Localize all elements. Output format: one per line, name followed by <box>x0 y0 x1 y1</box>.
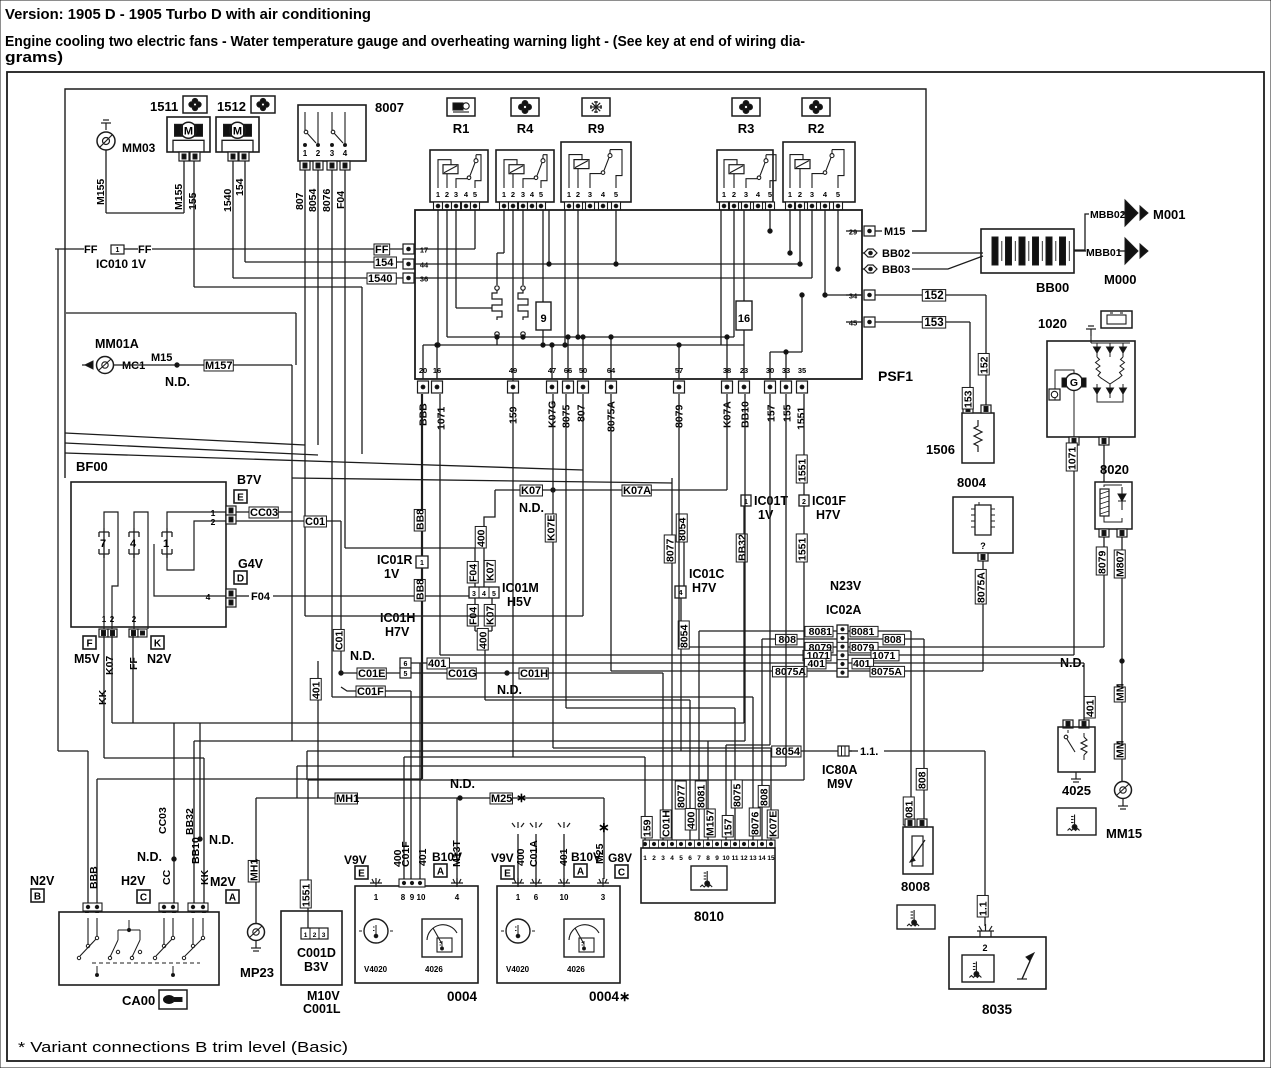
svg-text:3: 3 <box>521 190 525 199</box>
svg-text:2: 2 <box>445 190 449 199</box>
svg-text:2: 2 <box>313 932 317 939</box>
svg-text:MC1: MC1 <box>122 360 145 372</box>
svg-text:7: 7 <box>697 855 701 862</box>
svg-text:2: 2 <box>732 190 736 199</box>
svg-text:M155: M155 <box>95 179 107 205</box>
svg-text:K07: K07 <box>104 656 116 675</box>
svg-text:MH1: MH1 <box>336 793 359 805</box>
svg-text:29: 29 <box>849 228 857 237</box>
svg-text:1: 1 <box>436 190 440 199</box>
svg-text:3: 3 <box>330 149 335 158</box>
svg-text:5: 5 <box>679 855 683 862</box>
svg-text:5: 5 <box>614 190 618 199</box>
svg-text:C01: C01 <box>305 516 325 528</box>
svg-text:1551: 1551 <box>796 406 808 430</box>
svg-text:16: 16 <box>738 313 750 325</box>
svg-text:FF: FF <box>84 244 98 256</box>
svg-text:1: 1 <box>567 190 571 199</box>
svg-text:?: ? <box>980 541 986 551</box>
svg-text:FF: FF <box>138 244 152 256</box>
svg-text:8076: 8076 <box>321 188 333 212</box>
svg-text:64: 64 <box>607 366 616 375</box>
svg-text:1: 1 <box>303 149 308 158</box>
svg-text:1511: 1511 <box>150 99 178 114</box>
svg-text:MBB02: MBB02 <box>1090 209 1126 221</box>
svg-text:K07: K07 <box>484 562 496 581</box>
svg-text:C001L: C001L <box>303 1002 341 1016</box>
svg-text:808: 808 <box>758 788 770 806</box>
svg-text:15: 15 <box>767 855 775 862</box>
svg-text:1: 1 <box>516 893 521 902</box>
svg-text:8077: 8077 <box>675 784 687 808</box>
svg-text:K07: K07 <box>484 606 496 625</box>
svg-text:400: 400 <box>515 848 527 866</box>
svg-text:N.D.: N.D. <box>165 375 190 389</box>
svg-text:1551: 1551 <box>300 883 312 907</box>
svg-text:3: 3 <box>454 190 458 199</box>
svg-text:8075A: 8075A <box>975 572 987 603</box>
svg-text:36: 36 <box>420 275 428 284</box>
svg-text:V4020: V4020 <box>364 965 388 974</box>
svg-text:C: C <box>140 893 147 904</box>
svg-text:1551: 1551 <box>796 458 808 482</box>
svg-text:MM01A: MM01A <box>95 337 139 351</box>
svg-text:8081: 8081 <box>695 784 707 808</box>
svg-text:2: 2 <box>211 517 216 527</box>
svg-text:6: 6 <box>404 661 408 668</box>
svg-text:F: F <box>86 639 92 650</box>
svg-text:2: 2 <box>798 190 802 199</box>
svg-text:2: 2 <box>110 615 115 624</box>
svg-text:5: 5 <box>836 190 840 199</box>
svg-text:N2V: N2V <box>30 874 55 888</box>
svg-text:BB02: BB02 <box>882 248 910 260</box>
svg-text:4: 4 <box>482 591 486 598</box>
svg-text:401: 401 <box>1084 699 1096 717</box>
svg-text:5: 5 <box>492 591 496 598</box>
svg-text:4: 4 <box>206 592 211 602</box>
svg-text:* Variant connections B trim: * Variant connections B trim level (Basi… <box>18 1039 348 1056</box>
svg-text:MM03: MM03 <box>122 141 156 155</box>
svg-text:F04: F04 <box>335 191 347 209</box>
svg-text:N.D.: N.D. <box>209 833 234 847</box>
svg-text:M000: M000 <box>1104 272 1137 287</box>
svg-text:8: 8 <box>706 855 710 862</box>
svg-text:M157: M157 <box>704 810 716 836</box>
svg-text:N.D.: N.D. <box>519 501 544 515</box>
svg-text:155: 155 <box>782 404 794 422</box>
svg-text:3: 3 <box>744 190 748 199</box>
svg-text:C01E: C01E <box>358 668 386 680</box>
svg-text:K: K <box>154 639 162 650</box>
svg-text:BB32: BB32 <box>184 808 196 835</box>
svg-text:8075: 8075 <box>731 783 743 807</box>
svg-text:1: 1 <box>116 247 120 254</box>
svg-text:1: 1 <box>502 190 506 199</box>
svg-text:4026: 4026 <box>567 965 585 974</box>
svg-text:2: 2 <box>132 615 137 624</box>
svg-text:4: 4 <box>670 855 674 862</box>
svg-text:10: 10 <box>560 893 569 902</box>
svg-text:M13T: M13T <box>451 840 463 867</box>
svg-text:MM: MM <box>1114 740 1126 758</box>
svg-text:2: 2 <box>576 190 580 199</box>
svg-text:N.D.: N.D. <box>350 649 375 663</box>
svg-text:1020: 1020 <box>1038 316 1067 331</box>
svg-text:BB03: BB03 <box>882 264 910 276</box>
svg-text:50: 50 <box>579 366 587 375</box>
svg-text:C01F: C01F <box>357 686 384 698</box>
svg-text:4: 4 <box>343 149 348 158</box>
svg-text:CC03: CC03 <box>250 507 278 519</box>
svg-text:10: 10 <box>722 855 730 862</box>
svg-text:66: 66 <box>564 366 572 375</box>
svg-text:1071: 1071 <box>872 650 896 662</box>
svg-text:3: 3 <box>661 855 665 862</box>
svg-text:IC01M: IC01M <box>502 581 539 595</box>
svg-text:M157: M157 <box>205 360 233 372</box>
svg-text:N23V: N23V <box>830 579 862 593</box>
svg-text:C01: C01 <box>333 631 345 650</box>
svg-text:57: 57 <box>675 366 683 375</box>
svg-text:CC03: CC03 <box>157 807 169 834</box>
svg-text:9: 9 <box>410 893 415 902</box>
svg-text:M2V: M2V <box>210 875 236 889</box>
svg-text:BB00: BB00 <box>1036 280 1069 295</box>
svg-text:1: 1 <box>788 190 792 199</box>
svg-text:49: 49 <box>509 366 517 375</box>
svg-text:9: 9 <box>540 313 546 325</box>
svg-text:C001D: C001D <box>297 946 336 960</box>
svg-text:M25: M25 <box>594 843 606 864</box>
svg-text:401: 401 <box>853 658 871 670</box>
svg-text:N.D.: N.D. <box>137 850 162 864</box>
svg-text:A: A <box>437 867 444 878</box>
svg-text:PSF1: PSF1 <box>878 368 913 384</box>
svg-text:M807: M807 <box>1114 551 1126 577</box>
svg-text:M10V: M10V <box>307 989 340 1003</box>
svg-text:1: 1 <box>102 615 107 624</box>
svg-text:Engine cooling two electric fa: Engine cooling two electric fans - Water… <box>5 33 805 50</box>
svg-text:8081: 8081 <box>809 626 833 638</box>
svg-text:C01A: C01A <box>528 840 540 867</box>
svg-text:C01G: C01G <box>448 668 477 680</box>
svg-text:C: C <box>618 868 625 879</box>
svg-text:E: E <box>358 869 365 880</box>
svg-text:grams): grams) <box>5 49 63 66</box>
svg-text:C01H: C01H <box>660 810 672 837</box>
svg-text:1.1: 1.1 <box>977 901 989 916</box>
svg-text:155: 155 <box>187 192 199 210</box>
svg-text:R1: R1 <box>453 121 470 136</box>
svg-text:8007: 8007 <box>375 100 404 115</box>
svg-text:H5V: H5V <box>507 595 532 609</box>
svg-text:BBB: BBB <box>418 403 430 426</box>
svg-text:B3V: B3V <box>304 960 329 974</box>
svg-text:1: 1 <box>722 190 726 199</box>
svg-text:CC: CC <box>161 869 173 885</box>
svg-text:IC01C: IC01C <box>689 567 724 581</box>
svg-text:152: 152 <box>978 356 990 374</box>
svg-text:H7V: H7V <box>692 581 717 595</box>
svg-text:MP23: MP23 <box>240 965 274 980</box>
svg-text:8054: 8054 <box>776 746 801 758</box>
svg-text:D: D <box>237 574 244 585</box>
svg-text:157: 157 <box>766 404 778 422</box>
svg-text:808: 808 <box>884 634 902 646</box>
svg-text:IC80A: IC80A <box>822 763 857 777</box>
svg-text:R9: R9 <box>588 121 605 136</box>
svg-text:M155: M155 <box>173 184 185 210</box>
svg-text:M15: M15 <box>151 352 172 364</box>
svg-text:8079: 8079 <box>1096 550 1108 574</box>
svg-text:401: 401 <box>807 658 825 670</box>
svg-text:G: G <box>1070 377 1078 389</box>
svg-text:H7V: H7V <box>816 508 841 522</box>
svg-text:H7V: H7V <box>385 625 410 639</box>
svg-text:8020: 8020 <box>1100 462 1129 477</box>
svg-text:BB32: BB32 <box>736 534 748 561</box>
svg-text:8: 8 <box>401 893 406 902</box>
svg-text:1071: 1071 <box>1066 446 1078 470</box>
svg-text:152: 152 <box>924 290 943 302</box>
svg-text:A: A <box>577 867 584 878</box>
svg-text:13: 13 <box>749 855 757 862</box>
svg-text:M: M <box>184 125 193 137</box>
svg-text:44: 44 <box>420 261 429 270</box>
svg-text:8008: 8008 <box>901 879 930 894</box>
svg-text:1540: 1540 <box>222 188 234 212</box>
svg-text:34: 34 <box>849 292 858 301</box>
svg-text:5: 5 <box>539 190 543 199</box>
svg-text:BB10: BB10 <box>190 837 202 864</box>
svg-text:B7V: B7V <box>237 473 262 487</box>
svg-text:F04: F04 <box>467 564 479 582</box>
svg-text:MM: MM <box>1114 683 1126 701</box>
svg-text:47: 47 <box>548 366 556 375</box>
svg-text:V9V: V9V <box>344 853 367 867</box>
svg-text:BBB: BBB <box>88 866 100 889</box>
svg-text:3: 3 <box>601 893 606 902</box>
svg-text:8075A: 8075A <box>775 666 806 678</box>
svg-text:400: 400 <box>475 529 487 547</box>
svg-text:N.D.: N.D. <box>497 683 522 697</box>
svg-text:V4020: V4020 <box>506 965 530 974</box>
svg-text:159: 159 <box>641 819 653 837</box>
svg-text:M15: M15 <box>884 226 905 238</box>
svg-text:1071: 1071 <box>436 406 448 430</box>
svg-text:807: 807 <box>294 192 306 210</box>
svg-text:IC01H: IC01H <box>380 611 415 625</box>
svg-text:153: 153 <box>924 317 943 329</box>
svg-text:0004∗: 0004∗ <box>589 989 630 1004</box>
svg-text:K07: K07 <box>521 485 541 497</box>
svg-text:1512: 1512 <box>217 99 246 114</box>
svg-text:2: 2 <box>982 943 987 953</box>
svg-text:20: 20 <box>419 366 427 375</box>
svg-text:808: 808 <box>916 771 928 789</box>
svg-text:2: 2 <box>316 149 321 158</box>
svg-text:45: 45 <box>849 319 857 328</box>
svg-text:807: 807 <box>576 404 588 422</box>
svg-text:∗: ∗ <box>598 819 610 835</box>
svg-text:CA00: CA00 <box>122 993 155 1008</box>
svg-text:G8V: G8V <box>608 851 632 865</box>
svg-text:IC01T: IC01T <box>754 494 788 508</box>
svg-text:C01H: C01H <box>520 668 548 680</box>
svg-text:16: 16 <box>433 366 441 375</box>
svg-text:8077: 8077 <box>664 538 676 562</box>
svg-text:1.1.: 1.1. <box>860 746 878 758</box>
svg-text:IC010 1V: IC010 1V <box>96 257 146 271</box>
svg-text:6: 6 <box>534 893 539 902</box>
svg-text:2: 2 <box>802 499 806 506</box>
svg-text:4: 4 <box>455 893 460 902</box>
svg-text:B: B <box>34 892 41 903</box>
svg-text:2: 2 <box>511 190 515 199</box>
svg-text:10: 10 <box>417 893 426 902</box>
svg-text:G4V: G4V <box>238 557 264 571</box>
svg-text:E: E <box>237 493 244 504</box>
svg-text:3: 3 <box>588 190 592 199</box>
svg-text:5: 5 <box>768 190 772 199</box>
svg-text:H2V: H2V <box>121 874 146 888</box>
svg-text:A: A <box>229 893 236 904</box>
svg-text:R4: R4 <box>517 121 534 136</box>
svg-text:M001: M001 <box>1153 207 1186 222</box>
svg-text:1551: 1551 <box>796 537 808 561</box>
svg-text:12: 12 <box>740 855 748 862</box>
svg-text:1: 1 <box>304 932 308 939</box>
svg-text:8035: 8035 <box>982 1002 1013 1017</box>
svg-text:MH1: MH1 <box>248 859 260 881</box>
svg-text:30: 30 <box>766 366 774 375</box>
svg-text:23: 23 <box>740 366 748 375</box>
svg-text:2: 2 <box>652 855 656 862</box>
svg-text:BF00: BF00 <box>76 459 108 474</box>
svg-text:Version: 1905 D - 1905 Turbo D: Version: 1905 D - 1905 Turbo D with air … <box>5 6 371 23</box>
svg-text:K07E: K07E <box>545 515 557 541</box>
svg-text:V9V: V9V <box>491 851 514 865</box>
svg-text:7: 7 <box>100 538 106 550</box>
svg-text:35: 35 <box>798 366 806 375</box>
svg-text:0004: 0004 <box>447 989 478 1004</box>
svg-text:M9V: M9V <box>827 777 853 791</box>
svg-text:M25: M25 <box>491 793 512 805</box>
svg-text:5: 5 <box>473 190 477 199</box>
svg-text:154: 154 <box>375 257 394 269</box>
svg-text:8010: 8010 <box>694 909 724 924</box>
svg-text:3: 3 <box>810 190 814 199</box>
svg-text:R2: R2 <box>808 121 825 136</box>
svg-text:4026: 4026 <box>425 965 443 974</box>
svg-text:33: 33 <box>782 366 790 375</box>
svg-text:17: 17 <box>420 246 428 255</box>
svg-text:8054: 8054 <box>678 624 690 648</box>
svg-text:153: 153 <box>962 390 974 408</box>
svg-text:5: 5 <box>404 671 408 678</box>
svg-text:MBB01: MBB01 <box>1086 247 1122 259</box>
svg-text:401: 401 <box>428 658 446 670</box>
svg-text:6: 6 <box>688 855 692 862</box>
svg-text:FF: FF <box>128 657 140 670</box>
svg-text:E: E <box>504 869 511 880</box>
svg-text:1506: 1506 <box>926 442 955 457</box>
svg-text:MM15: MM15 <box>1106 826 1142 841</box>
svg-text:1V: 1V <box>384 567 400 581</box>
svg-text:8075A: 8075A <box>871 666 902 678</box>
svg-text:N.D.: N.D. <box>450 777 475 791</box>
svg-text:8054: 8054 <box>307 188 319 212</box>
svg-text:14: 14 <box>758 855 766 862</box>
svg-text:IC02A: IC02A <box>826 603 861 617</box>
svg-text:BB8: BB8 <box>414 579 426 600</box>
svg-text:R3: R3 <box>738 121 755 136</box>
svg-text:KK: KK <box>97 689 109 705</box>
svg-text:M: M <box>233 125 242 137</box>
svg-text:1: 1 <box>163 538 169 550</box>
svg-text:IC01F: IC01F <box>812 494 846 508</box>
svg-text:8004: 8004 <box>957 475 987 490</box>
svg-text:4: 4 <box>130 538 137 550</box>
svg-text:3: 3 <box>472 591 476 598</box>
svg-text:154: 154 <box>234 178 246 196</box>
svg-text:3: 3 <box>322 932 326 939</box>
svg-text:401: 401 <box>558 848 570 866</box>
svg-text:157: 157 <box>722 818 734 836</box>
svg-text:401: 401 <box>310 681 322 699</box>
svg-text:K07E: K07E <box>767 811 779 837</box>
svg-text:1: 1 <box>420 560 424 567</box>
svg-text:400: 400 <box>477 631 489 649</box>
svg-text:1: 1 <box>643 855 647 862</box>
svg-text:8054: 8054 <box>676 517 688 541</box>
svg-text:IC01R: IC01R <box>377 553 412 567</box>
svg-text:BB8: BB8 <box>414 509 426 530</box>
svg-text:F04: F04 <box>251 591 271 603</box>
svg-text:∗: ∗ <box>516 790 527 805</box>
svg-text:8076: 8076 <box>749 811 761 835</box>
svg-text:4025: 4025 <box>1062 783 1091 798</box>
svg-text:FF: FF <box>375 244 389 256</box>
svg-text:400: 400 <box>685 811 697 829</box>
svg-text:1540: 1540 <box>368 273 392 285</box>
svg-text:1V: 1V <box>758 508 774 522</box>
svg-text:38: 38 <box>723 366 731 375</box>
svg-text:11: 11 <box>732 855 739 862</box>
svg-text:N2V: N2V <box>147 652 172 666</box>
svg-text:808: 808 <box>778 634 796 646</box>
svg-text:C01F: C01F <box>400 841 412 867</box>
svg-text:401: 401 <box>417 848 429 866</box>
svg-text:K07A: K07A <box>623 485 651 497</box>
svg-text:8081: 8081 <box>851 626 875 638</box>
svg-text:9: 9 <box>715 855 719 862</box>
svg-text:1: 1 <box>374 893 379 902</box>
svg-text:M5V: M5V <box>74 652 100 666</box>
